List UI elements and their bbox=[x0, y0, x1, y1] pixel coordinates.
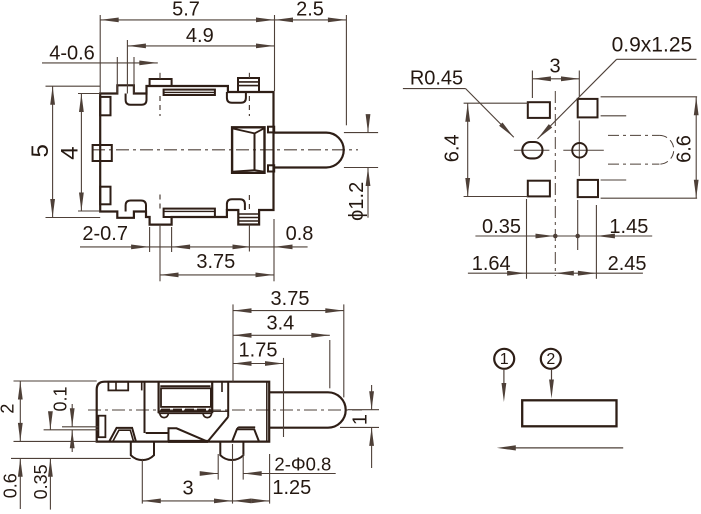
svg-text:2-Φ0.8: 2-Φ0.8 bbox=[274, 454, 331, 475]
svg-text:1: 1 bbox=[500, 351, 509, 368]
svg-text:0.6: 0.6 bbox=[0, 473, 20, 498]
svg-text:2.5: 2.5 bbox=[296, 0, 324, 21]
svg-text:5: 5 bbox=[27, 144, 54, 157]
svg-text:5.7: 5.7 bbox=[172, 0, 200, 21]
svg-text:3.75: 3.75 bbox=[271, 288, 310, 310]
svg-text:3: 3 bbox=[182, 478, 193, 500]
svg-text:0.35: 0.35 bbox=[31, 464, 51, 499]
svg-text:1.75: 1.75 bbox=[239, 339, 278, 361]
svg-text:6.4: 6.4 bbox=[442, 134, 464, 162]
svg-text:1.25: 1.25 bbox=[272, 477, 311, 499]
svg-text:0.35: 0.35 bbox=[482, 216, 521, 238]
svg-text:1.45: 1.45 bbox=[609, 216, 648, 238]
svg-text:4.9: 4.9 bbox=[186, 25, 214, 47]
svg-text:ϕ1.2: ϕ1.2 bbox=[346, 182, 368, 221]
svg-text:4: 4 bbox=[57, 146, 84, 159]
svg-text:R0.45: R0.45 bbox=[410, 68, 463, 90]
svg-text:0.8: 0.8 bbox=[286, 223, 314, 245]
svg-text:4-0.6: 4-0.6 bbox=[49, 43, 95, 65]
svg-text:2: 2 bbox=[546, 351, 555, 368]
svg-text:2.45: 2.45 bbox=[608, 253, 647, 275]
svg-text:2: 2 bbox=[0, 404, 18, 414]
svg-text:3.4: 3.4 bbox=[266, 312, 294, 334]
svg-text:1: 1 bbox=[349, 414, 371, 425]
svg-text:2-0.7: 2-0.7 bbox=[82, 223, 128, 245]
svg-text:0.1: 0.1 bbox=[50, 386, 70, 411]
svg-text:0.9x1.25: 0.9x1.25 bbox=[612, 34, 693, 57]
svg-text:6.6: 6.6 bbox=[673, 135, 695, 163]
svg-text:3: 3 bbox=[550, 56, 561, 78]
svg-text:1.64: 1.64 bbox=[472, 253, 511, 275]
svg-text:3.75: 3.75 bbox=[196, 251, 235, 273]
